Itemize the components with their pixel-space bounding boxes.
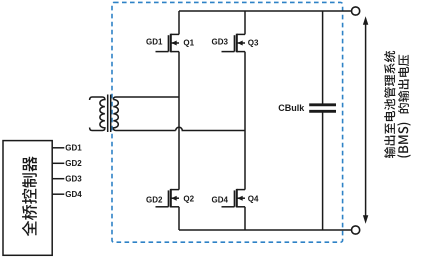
- transistor Q1: [156, 34, 180, 53]
- wire Q3 drain to top rail: [244, 11, 246, 34]
- dashed converter boundary box: [112, 2, 343, 242]
- transformer T1 core: [108, 95, 111, 133]
- svg-text:Q2: Q2: [183, 194, 194, 203]
- svg-text:CBulk: CBulk: [278, 103, 305, 113]
- wire Q4 source to bottom rail: [244, 207, 246, 230]
- wire CBulk to bottom rail: [322, 113, 324, 231]
- wire controller output stub GD2: [52, 162, 64, 164]
- output terminal bottom: [352, 226, 360, 234]
- transformer T1 secondary winding: [113, 97, 179, 131]
- wire phase leg B (Q3-Q4): [244, 52, 246, 190]
- wire bottom rail (-): [179, 229, 352, 231]
- wire Q2 source to bottom rail: [178, 207, 180, 230]
- svg-text:GD3: GD3: [65, 175, 82, 184]
- svg-text:GD2: GD2: [65, 159, 82, 168]
- svg-text:GD3: GD3: [212, 37, 229, 46]
- wire secondary bottom lead with hop over leg A: [176, 127, 245, 130]
- wire Q1 drain to top rail: [178, 11, 180, 34]
- transistor Q4: [222, 189, 246, 208]
- transistor Q3: [222, 34, 246, 53]
- svg-text:GD1: GD1: [65, 144, 82, 153]
- label (BMS) 的输出电压 (caption line 2, rotated): [397, 123, 411, 158]
- wire controller output stub GD4: [52, 193, 64, 195]
- output voltage double-headed arrow: [363, 16, 368, 224]
- label 全桥控制器 (full-bridge controller, rotated): [22, 156, 37, 236]
- wire phase leg A (Q1-Q2): [178, 52, 180, 190]
- svg-text:Q1: Q1: [183, 38, 194, 47]
- svg-text:Q3: Q3: [248, 38, 259, 47]
- wire controller output stub GD3: [52, 178, 64, 180]
- full-bridge controller box: [3, 141, 52, 256]
- svg-text:GD2: GD2: [146, 195, 163, 204]
- svg-text:GD4: GD4: [212, 195, 229, 204]
- svg-text:GD1: GD1: [146, 37, 163, 46]
- label 输出至电池管理系统 (output-to-BMS caption line 1, rotated): [384, 51, 395, 158]
- wire top rail (+): [179, 10, 352, 12]
- output terminal top: [352, 7, 360, 15]
- svg-text:Q4: Q4: [248, 194, 259, 203]
- transistor Q2: [156, 189, 180, 208]
- wire controller output stub GD1: [52, 147, 64, 149]
- wire top rail to CBulk: [322, 11, 324, 104]
- capacitor CBulk: [309, 105, 336, 112]
- transformer T1 primary winding: [90, 97, 105, 131]
- svg-text:GD4: GD4: [65, 190, 82, 199]
